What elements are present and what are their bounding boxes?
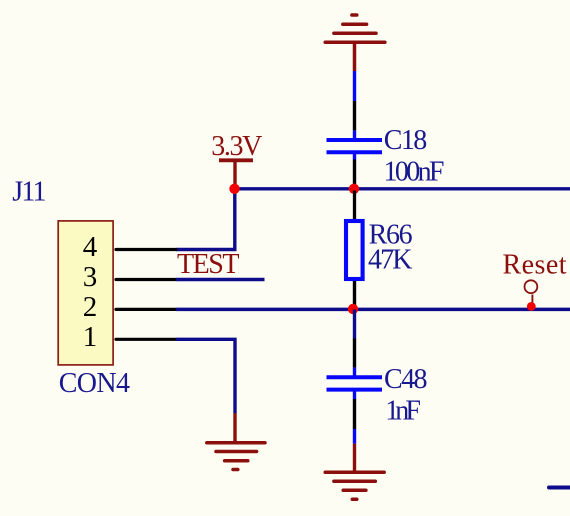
svg-text:3.3V: 3.3V [211,131,262,162]
svg-text:TEST: TEST [177,249,240,280]
svg-text:47K: 47K [368,244,413,275]
svg-text:1nF: 1nF [385,395,421,426]
svg-text:Reset: Reset [503,250,567,281]
svg-text:C48: C48 [384,364,428,395]
svg-text:3: 3 [83,261,98,293]
svg-text:2: 2 [83,291,98,323]
svg-text:100nF: 100nF [384,156,445,187]
svg-text:1: 1 [83,321,98,353]
svg-text:C18: C18 [384,125,428,156]
svg-text:J11: J11 [12,177,46,208]
svg-text:CON4: CON4 [59,368,130,399]
svg-text:4: 4 [83,231,98,263]
